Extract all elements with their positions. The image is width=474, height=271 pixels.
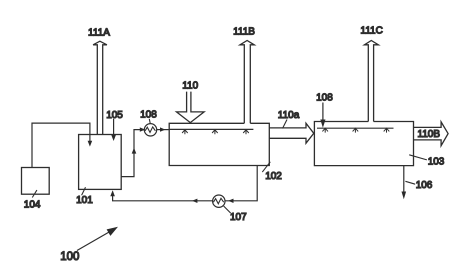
svg-text:110: 110 (182, 80, 198, 91)
heat exchanger 107 (213, 195, 225, 207)
injection arrow 108 into 103 (322, 103, 324, 122)
svg-text:100: 100 (60, 251, 79, 263)
svg-text:108: 108 (316, 93, 333, 104)
wire from 104 into 101 (32, 123, 90, 167)
label 102 (262, 162, 270, 172)
tray nozzle arrows 102 (182, 130, 188, 134)
svg-text:106: 106 (416, 180, 433, 191)
feed arrow 105 into 101 (113, 119, 115, 136)
svg-text:104: 104 (24, 199, 41, 210)
feed arrow 110 (hollow) into 102 (177, 92, 205, 123)
label 107 (224, 206, 231, 213)
stream arrow 111B (240, 41, 254, 124)
svg-text:101: 101 (76, 195, 93, 206)
svg-text:111B: 111B (233, 26, 255, 37)
figure pointer 100 (77, 232, 110, 251)
svg-text:111C: 111C (360, 25, 382, 36)
svg-text:108: 108 (140, 109, 157, 120)
drain wire 106 (403, 166, 405, 193)
svg-text:102: 102 (265, 171, 282, 182)
wire heat exchanger 108 to scrubber 102 (157, 129, 170, 131)
svg-text:110B: 110B (417, 129, 440, 140)
wire 101 to heat exchanger 108 (121, 130, 144, 177)
quench vessel 103 (314, 122, 413, 166)
tray nozzle arrows 103 (322, 128, 328, 132)
label 103 (409, 155, 427, 160)
label 110a (283, 120, 288, 129)
label 106 (405, 181, 415, 184)
heat exchanger 108 (144, 124, 156, 136)
reactor vessel 101 (79, 135, 122, 190)
svg-text:110a: 110a (278, 110, 300, 121)
spray tray in 102 (169, 128, 253, 130)
svg-text:107: 107 (230, 212, 247, 223)
product arrow 110B (414, 122, 449, 146)
spray tray in 103 (317, 127, 394, 129)
feed box 104 (22, 168, 50, 195)
label 108 (148, 119, 151, 124)
recycle wire 102 to 107 to 101 (113, 166, 258, 201)
scrubber vessel 102 (169, 123, 269, 165)
svg-text:111A: 111A (88, 28, 110, 39)
stream arrow 111C (364, 41, 378, 122)
label 101 (82, 187, 86, 195)
label 104 (32, 190, 37, 197)
stream arrow 111A (93, 41, 107, 134)
svg-text:103: 103 (428, 157, 445, 168)
svg-text:105: 105 (106, 110, 123, 121)
vapor duct arrow 110a (269, 123, 314, 143)
